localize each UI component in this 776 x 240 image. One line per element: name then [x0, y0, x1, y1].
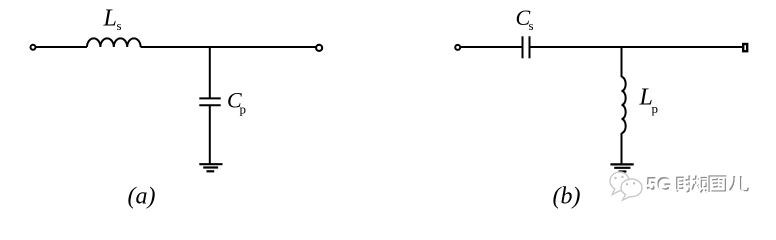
svg-text:(a): (a)	[128, 184, 156, 210]
svg-text:p: p	[240, 101, 247, 116]
svg-text:L: L	[103, 6, 117, 32]
svg-text:p: p	[652, 101, 659, 116]
svg-text:s: s	[117, 18, 122, 33]
svg-text:s: s	[529, 18, 534, 33]
svg-text:(b): (b)	[553, 184, 581, 210]
svg-text:5G: 5G	[647, 176, 672, 197]
